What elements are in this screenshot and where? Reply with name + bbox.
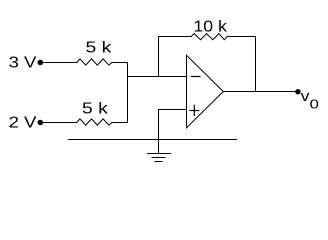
- svg-text:10 k: 10 k: [193, 18, 228, 35]
- svg-text:3 V: 3 V: [9, 55, 37, 72]
- svg-text:5 k: 5 k: [82, 100, 109, 117]
- svg-text:2 V: 2 V: [9, 115, 37, 132]
- svg-text:0: 0: [310, 97, 319, 112]
- svg-text:5 k: 5 k: [86, 40, 113, 57]
